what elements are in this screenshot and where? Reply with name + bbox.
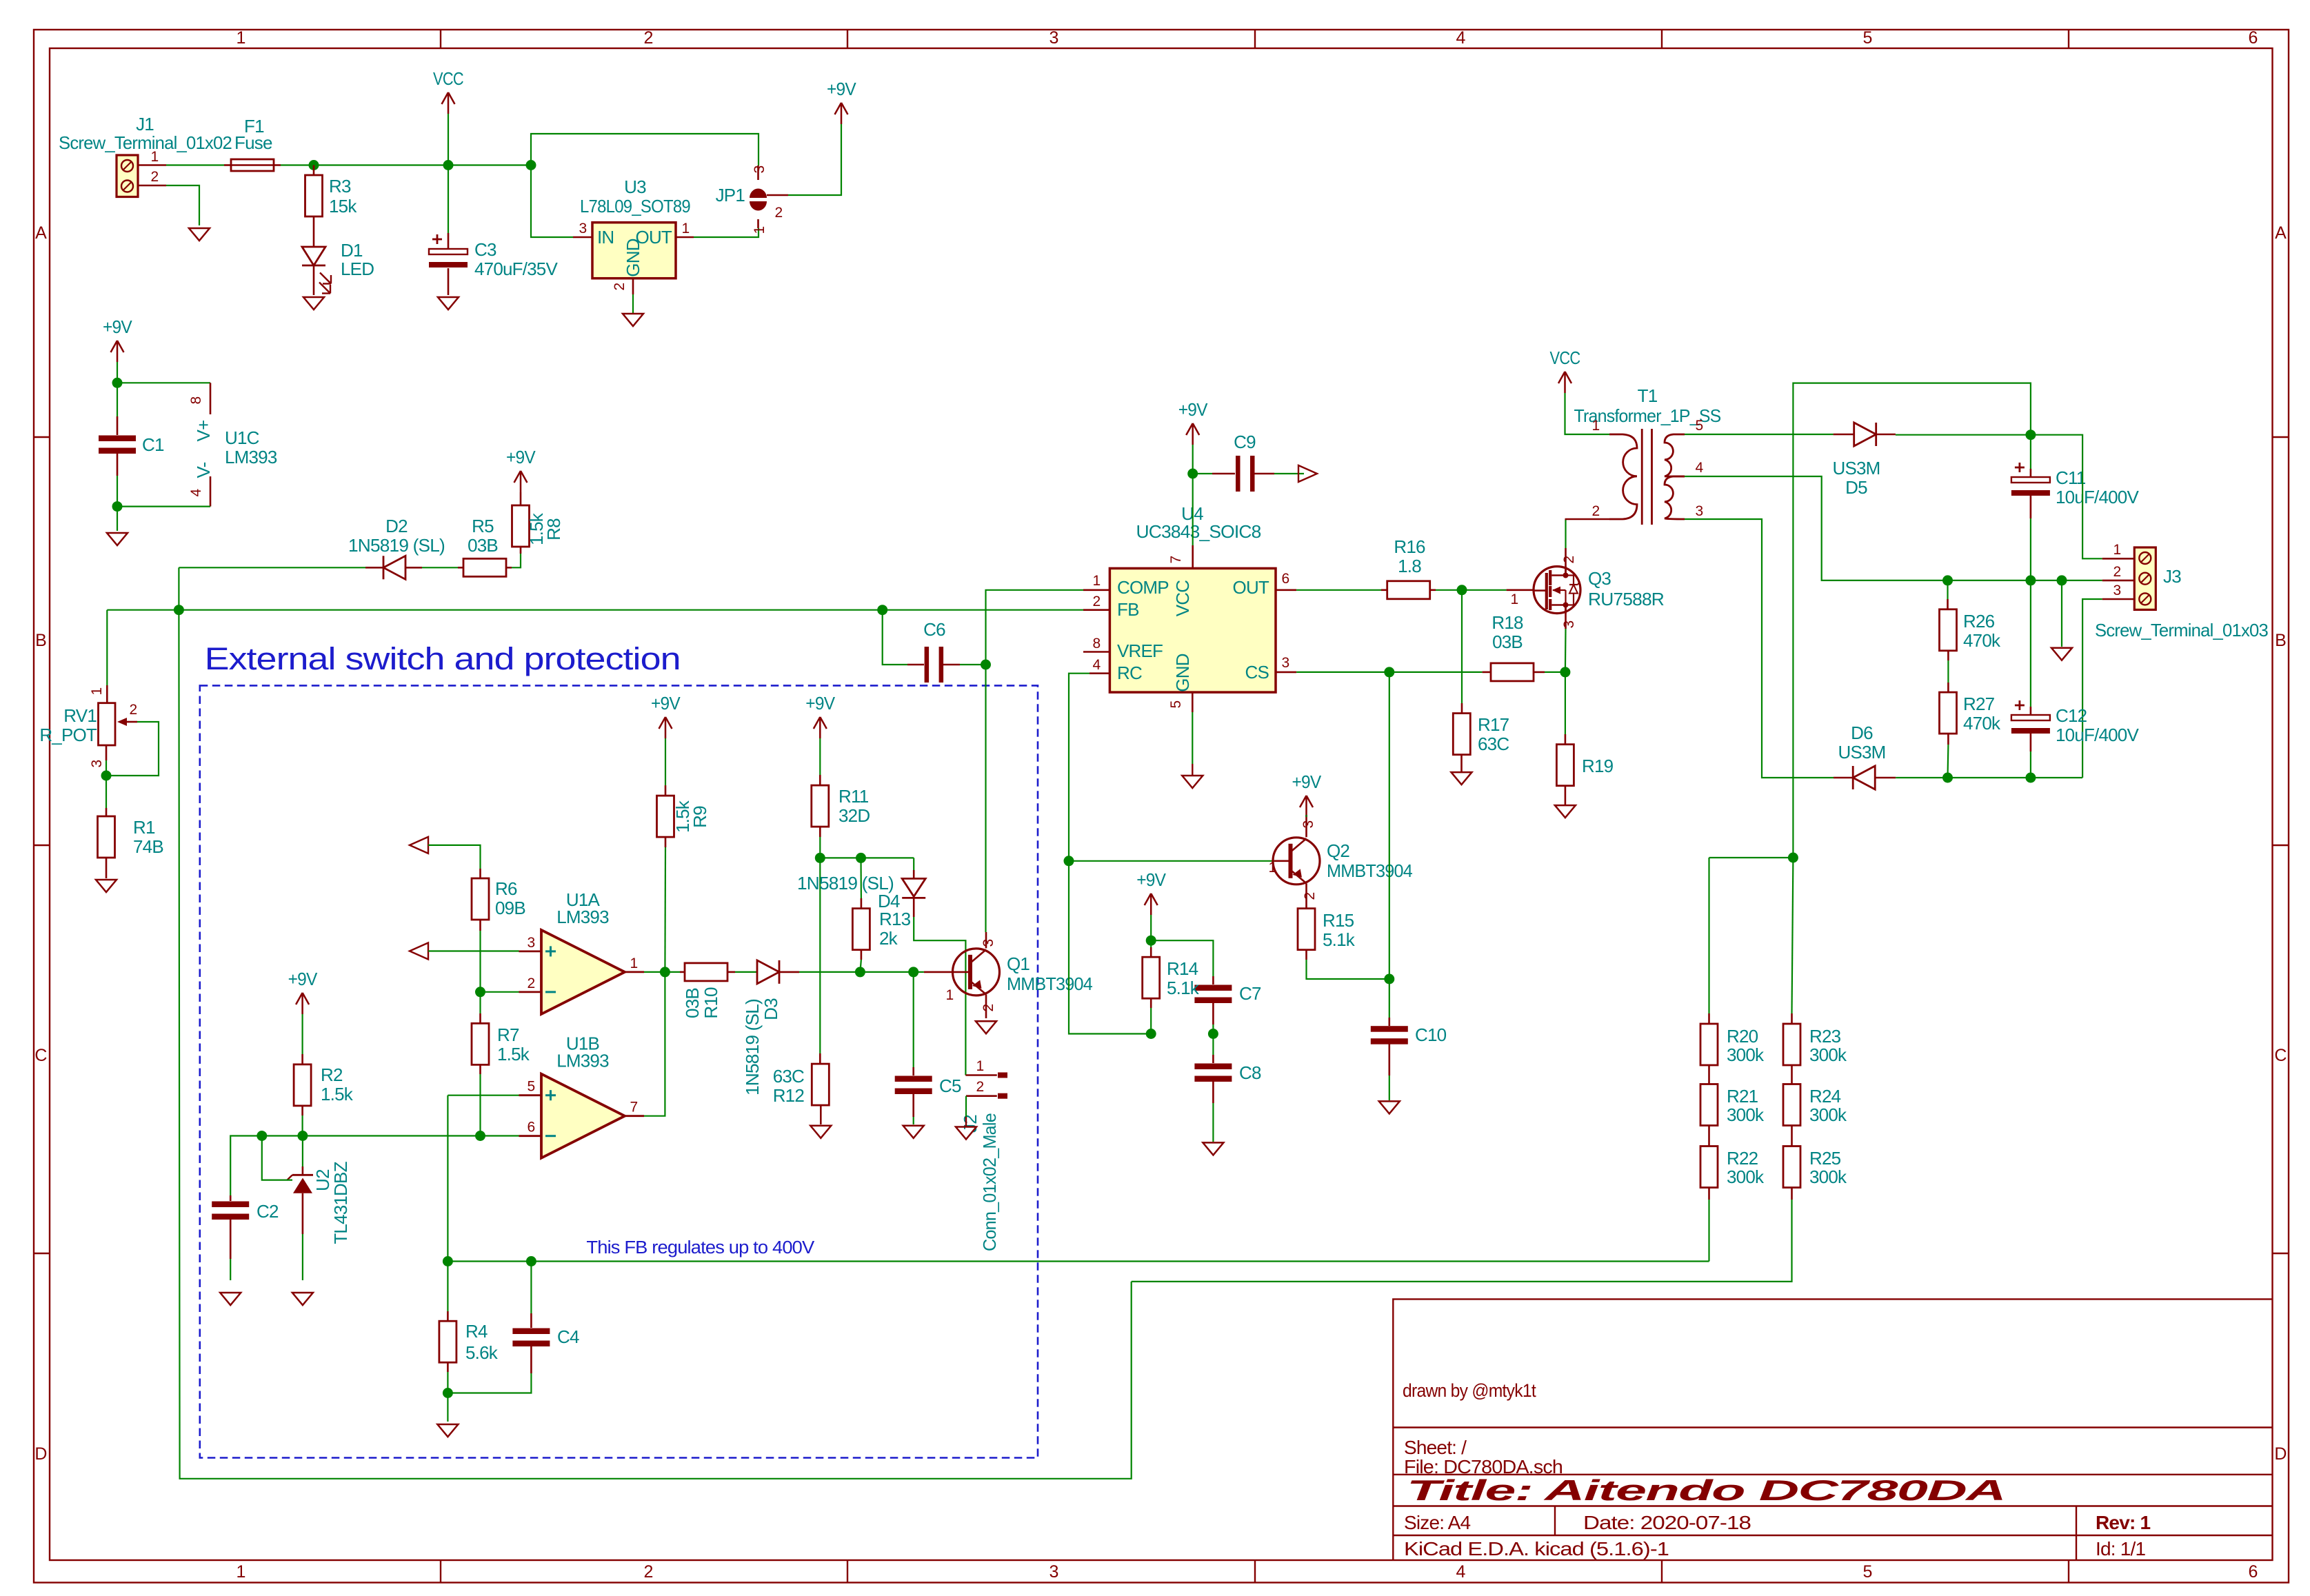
C7 pin stubs	[1212, 976, 1214, 984]
svg-text:2: 2	[612, 283, 627, 290]
svg-text:1: 1	[682, 221, 690, 236]
wire gate node to R17	[1461, 590, 1463, 703]
wire T1 pin4 to mid rail	[1685, 476, 2102, 580]
wire arrow to R6 top	[428, 845, 481, 869]
wire U3 GND down	[632, 294, 634, 314]
ground at C3	[438, 297, 459, 310]
svg-text:C10: C10	[1415, 1024, 1447, 1045]
wire C12 to D6 rail	[2030, 751, 2031, 778]
wire VCC node to C3	[448, 165, 449, 234]
wire CS node to C10	[1389, 979, 1390, 1018]
svg-text:300k: 300k	[1809, 1166, 1847, 1187]
J1 pin stubs	[138, 164, 166, 166]
junction at U1A -input	[475, 987, 485, 997]
power +9V at R11	[805, 693, 835, 738]
wire RV1.3 to node	[106, 760, 107, 776]
svg-text:+9V: +9V	[827, 79, 856, 99]
wire R9 to output node	[664, 847, 666, 972]
wire D6 rail	[1896, 777, 2082, 778]
power +9V at Q2	[1292, 771, 1322, 817]
Q2 emitter stub	[1305, 883, 1307, 900]
junction at D5 output	[2025, 430, 2036, 440]
svg-text:300k: 300k	[1809, 1104, 1847, 1125]
svg-text:2: 2	[1302, 892, 1318, 900]
svg-text:drawn by @mtyk1t: drawn by @mtyk1t	[1403, 1380, 1536, 1401]
svg-text:+9V: +9V	[1178, 399, 1208, 420]
svg-text:J2: J2	[960, 1115, 981, 1133]
regulator U3 body	[592, 223, 676, 279]
op-amp U1A	[519, 889, 645, 1014]
svg-text:3: 3	[2113, 583, 2121, 598]
wire R15 to CS node	[1307, 960, 1389, 979]
open arrow at U1A +input	[410, 943, 428, 960]
R6 pin stubs	[479, 869, 481, 878]
svg-text:1: 1	[630, 956, 638, 971]
svg-text:1: 1	[236, 28, 245, 48]
capacitor C2	[212, 1202, 249, 1220]
transistor Q3 RU7588R	[1534, 567, 1580, 614]
Q1 collector stub	[985, 932, 987, 948]
T1 pin 2 stub	[1565, 518, 1610, 521]
wire top rail	[1793, 383, 2031, 858]
capacitor C5	[895, 1076, 932, 1095]
wire node to U1B -input	[481, 1135, 519, 1136]
svg-text:C8: C8	[1239, 1062, 1261, 1083]
svg-text:LM393: LM393	[556, 1051, 609, 1071]
capacitor C1	[99, 436, 136, 454]
svg-text:J1: J1	[136, 114, 154, 134]
svg-text:1: 1	[2113, 542, 2121, 558]
svg-text:3: 3	[981, 939, 996, 947]
ground at C1	[107, 533, 128, 545]
R1 pin stubs	[106, 808, 108, 816]
wire FB node down long rail	[179, 610, 1131, 1479]
svg-text:2: 2	[976, 1079, 984, 1095]
svg-text:4: 4	[1456, 1562, 1465, 1582]
R12 pin stubs	[819, 1053, 821, 1064]
svg-text:63C: 63C	[1478, 734, 1509, 754]
Q1 base stub	[924, 971, 968, 973]
R11 pin stubs	[819, 775, 821, 785]
junction at R13 top	[856, 853, 866, 863]
D2 pin stubs	[365, 567, 383, 569]
wire FB row down to RV1	[106, 610, 108, 685]
svg-text:C: C	[2274, 1046, 2287, 1065]
svg-text:R_POT: R_POT	[39, 725, 97, 745]
svg-text:2k: 2k	[879, 928, 898, 949]
wire output node to J3 pin1	[2031, 435, 2102, 559]
svg-text:2: 2	[1592, 503, 1600, 519]
ground at U3	[623, 314, 643, 326]
svg-text:R1: R1	[133, 817, 155, 838]
svg-text:1: 1	[976, 1058, 984, 1074]
wire F1 to VCC node	[281, 164, 448, 165]
svg-text:R18: R18	[1492, 612, 1523, 633]
Q3 gate stub	[1507, 589, 1534, 591]
svg-text:R14: R14	[1167, 958, 1198, 979]
op-amp U1B	[519, 1033, 645, 1158]
ground at J2	[956, 1127, 976, 1140]
wire RC net down	[1069, 861, 1151, 1034]
svg-text:3: 3	[89, 760, 105, 767]
svg-text:VCC: VCC	[1550, 347, 1580, 368]
svg-text:1: 1	[236, 1562, 245, 1582]
diode D3	[757, 960, 779, 984]
svg-text:Screw_Terminal_01x03: Screw_Terminal_01x03	[2095, 620, 2268, 640]
wire D2 to R5	[422, 567, 460, 568]
svg-text:5: 5	[1862, 28, 1871, 48]
svg-text:+9V: +9V	[1136, 869, 1166, 890]
junction at C11/C12	[2025, 575, 2036, 585]
svg-text:R20: R20	[1727, 1026, 1758, 1047]
svg-text:VCC: VCC	[433, 68, 463, 89]
wire C10 to ground	[1389, 1075, 1390, 1100]
svg-text:R5: R5	[472, 516, 494, 536]
svg-text:R17: R17	[1478, 714, 1509, 735]
svg-text:3: 3	[1049, 1562, 1058, 1582]
svg-text:FB: FB	[1117, 599, 1139, 620]
svg-text:2: 2	[528, 976, 535, 991]
ground at D1	[303, 297, 324, 310]
D4 cathode stub	[913, 898, 915, 917]
ground at C8	[1203, 1142, 1223, 1155]
svg-text:1.8: 1.8	[1398, 556, 1421, 576]
junction at C8 top	[1208, 1029, 1218, 1039]
svg-text:TL431DBZ: TL431DBZ	[330, 1161, 351, 1244]
R10 pin stubs	[680, 971, 685, 973]
svg-text:300k: 300k	[1809, 1044, 1847, 1065]
svg-text:5.1k: 5.1k	[1167, 978, 1200, 998]
svg-text:470k: 470k	[1963, 713, 2001, 734]
wire R13 to base net	[860, 960, 861, 972]
R23 pin stubs	[1791, 1013, 1793, 1024]
R8 pin stubs	[520, 547, 522, 554]
svg-text:Title: Aitendo DC780DA: Title: Aitendo DC780DA	[1407, 1474, 2005, 1506]
junction at R13 bottom	[855, 967, 865, 977]
wire C9 to open arrow	[1274, 473, 1304, 474]
capacitor C9	[1236, 456, 1255, 492]
connector J1 Screw_Terminal_01x02	[117, 155, 138, 197]
junction at VCC/C3	[443, 160, 454, 170]
U4 ground stub	[1192, 764, 1193, 775]
wire U3 OUT to JP1.1	[694, 228, 759, 237]
D3 cathode stub	[779, 971, 799, 973]
open arrow at C9	[1298, 465, 1317, 482]
svg-text:2: 2	[151, 169, 159, 185]
C10 pin stubs	[1389, 1018, 1391, 1026]
svg-text:1N5819 (SL): 1N5819 (SL)	[348, 535, 445, 556]
R5 pin stubs	[458, 567, 463, 569]
wire U1B +input	[448, 1095, 519, 1096]
svg-text:8: 8	[1093, 636, 1101, 651]
svg-text:3: 3	[1282, 655, 1289, 671]
svg-text:COMP: COMP	[1117, 577, 1169, 598]
wire D5 to output node	[1896, 434, 2031, 436]
wire node row to C8	[1212, 1034, 1214, 1055]
wire U4 RC to Q2 base	[1069, 674, 1274, 861]
svg-text:470uF/35V: 470uF/35V	[474, 259, 558, 279]
svg-text:UC3843_SOIC8: UC3843_SOIC8	[1136, 521, 1261, 542]
capacitor C8	[1194, 1064, 1232, 1082]
svg-text:3: 3	[579, 221, 587, 236]
wire C8 to ground	[1212, 1103, 1214, 1142]
diode D2	[383, 556, 405, 579]
svg-text:7: 7	[630, 1100, 638, 1115]
wire D6 rail to J3 pin3	[2082, 599, 2102, 778]
junction at C5 top	[908, 967, 918, 977]
U4 pin 1 stub	[1083, 589, 1109, 591]
svg-text:3: 3	[528, 935, 535, 951]
ground at J3 pin2 rail	[2051, 648, 2072, 660]
svg-text:03B: 03B	[468, 535, 498, 556]
svg-text:C: C	[34, 1046, 47, 1065]
svg-text:R4: R4	[465, 1321, 488, 1342]
svg-text:T1: T1	[1638, 385, 1658, 406]
junction at R2 bottom	[297, 1131, 308, 1141]
svg-text:1: 1	[1592, 418, 1600, 434]
wire output node to U1B out	[644, 972, 665, 1116]
svg-text:R22: R22	[1727, 1148, 1758, 1169]
wire R14 node to C7	[1151, 940, 1213, 976]
C9 pin stubs	[1212, 473, 1235, 475]
svg-text:RC: RC	[1117, 663, 1142, 683]
C2 pin stubs	[230, 1195, 232, 1201]
svg-text:3: 3	[1300, 820, 1316, 828]
svg-text:LED: LED	[341, 259, 374, 279]
wire U4 COMP to Q1 collector	[986, 590, 1084, 932]
wire +9V to Q2 collector	[1305, 815, 1307, 817]
svg-text:5: 5	[1862, 1562, 1871, 1582]
R24-R25 stub	[1791, 1126, 1793, 1147]
junction at R3 top	[309, 160, 319, 170]
svg-text:KiCad E.D.A. kicad (5.1.6)-1: KiCad E.D.A. kicad (5.1.6)-1	[1404, 1538, 1669, 1559]
svg-text:JP1: JP1	[716, 185, 745, 205]
svg-text:09B: 09B	[495, 898, 525, 918]
power VCC at T1	[1550, 347, 1580, 393]
wire JP1.2 to +9V	[788, 124, 841, 195]
wire mid rail to C12	[2030, 580, 2031, 707]
wire +input arrow	[428, 950, 519, 951]
TL431 U2	[287, 1166, 313, 1234]
svg-text:R21: R21	[1727, 1086, 1758, 1107]
resistor R14	[1143, 957, 1160, 998]
svg-text:D2: D2	[385, 516, 408, 536]
C4 pin stubs	[530, 1313, 532, 1328]
svg-text:R2: R2	[321, 1064, 343, 1085]
svg-text:L78L09_SOT89: L78L09_SOT89	[580, 196, 690, 216]
wire bottom node to ground	[447, 1393, 448, 1422]
wire C5 to ground	[913, 1117, 914, 1124]
svg-text:R23: R23	[1809, 1026, 1841, 1047]
svg-text:LM393: LM393	[556, 907, 609, 927]
resistor R13	[852, 909, 870, 950]
junction at R14 top	[1146, 936, 1156, 946]
wire C1 node to ground	[117, 507, 118, 531]
wire +9V arrow to R8	[520, 492, 521, 493]
svg-text:D1: D1	[341, 240, 363, 261]
U1C pin 4 stub	[210, 476, 212, 507]
junction at Q3 source	[1560, 667, 1570, 677]
wire output node to C11	[2030, 435, 2031, 469]
capacitor C3	[429, 234, 468, 267]
wire R4 to bottom node	[447, 1372, 448, 1393]
wire R16 to gate node	[1436, 589, 1507, 591]
svg-text:+9V: +9V	[1292, 771, 1322, 792]
ground at U2	[292, 1293, 313, 1305]
wire C2 to ground	[230, 1259, 231, 1280]
svg-text:5: 5	[1696, 418, 1703, 434]
svg-text:C12: C12	[2056, 705, 2087, 726]
svg-text:R11: R11	[838, 786, 869, 807]
resistor R2	[294, 1064, 311, 1106]
wire J1.1 to F1	[166, 164, 224, 165]
wire Q3 drain to T1 pin2	[1565, 519, 1566, 548]
svg-text:J3: J3	[2163, 566, 2181, 587]
junction at CS net	[1384, 667, 1394, 677]
svg-text:6: 6	[528, 1120, 535, 1135]
wire +9V to VCC node	[1192, 445, 1194, 474]
Q3 source stub	[1565, 605, 1567, 629]
R2 pin stubs	[301, 1054, 303, 1064]
C8 pin stubs	[1212, 1055, 1214, 1063]
wire source node to R19	[1565, 672, 1566, 734]
ground at R12	[810, 1126, 831, 1138]
svg-text:GND: GND	[623, 239, 643, 276]
svg-text:LM393: LM393	[225, 447, 277, 467]
svg-text:8: 8	[188, 396, 204, 404]
junction at C10 top	[1384, 974, 1394, 984]
svg-text:VCC: VCC	[1172, 580, 1193, 617]
wire +9V to C1 node	[117, 362, 118, 383]
svg-text:6: 6	[2248, 1562, 2257, 1582]
svg-text:+9V: +9V	[103, 316, 132, 337]
R16 pin stubs	[1381, 589, 1387, 591]
Q2 base stub	[1274, 860, 1289, 862]
svg-text:R13: R13	[879, 909, 911, 929]
connector J3 Screw_Terminal_01x03	[2134, 547, 2156, 609]
wire R7 to U1B -input node	[479, 1074, 481, 1136]
svg-text:C5: C5	[939, 1075, 961, 1096]
svg-text:1: 1	[1093, 573, 1101, 589]
connector J2 pin1	[965, 1073, 1007, 1078]
wire VCC to T1 pin1	[1565, 393, 1610, 434]
note dashed box	[200, 685, 1038, 1457]
diode D4	[902, 878, 925, 898]
svg-text:R12: R12	[773, 1085, 805, 1106]
svg-text:4: 4	[1696, 460, 1704, 476]
svg-text:R15: R15	[1323, 910, 1354, 931]
wire ladder left top	[1708, 858, 1709, 1013]
J2 ground stub	[965, 1117, 967, 1127]
svg-text:R27: R27	[1963, 694, 1995, 714]
svg-text:15k: 15k	[329, 196, 357, 216]
junction at C9	[1187, 469, 1198, 479]
svg-text:7: 7	[1168, 556, 1184, 563]
wire node to U1A -input	[481, 991, 519, 993]
power +9V at R14	[1136, 869, 1166, 915]
resistor R15	[1298, 909, 1315, 950]
svg-text:1: 1	[1269, 860, 1276, 876]
wire node to C9	[1193, 473, 1212, 474]
diode D5	[1854, 423, 1876, 446]
junction at C4 top	[526, 1256, 536, 1266]
wire R14 to node row	[1150, 1008, 1152, 1034]
svg-text:32D: 32D	[838, 805, 870, 826]
power +9V at R8	[506, 447, 536, 492]
svg-text:2: 2	[775, 205, 783, 221]
C6 pin stubs	[907, 664, 924, 666]
R4 pin stubs	[447, 1311, 449, 1321]
svg-text:03B: 03B	[682, 988, 703, 1018]
svg-text:This FB regulates up to 400V: This FB regulates up to 400V	[586, 1238, 814, 1257]
U4 pin 7 stub	[1192, 545, 1194, 568]
svg-text:Q2: Q2	[1327, 840, 1349, 861]
wire VCC node to U3 branch	[448, 164, 531, 165]
wire D2 row down to FB node	[178, 567, 179, 609]
resistor R18	[1491, 663, 1534, 681]
resistor R20	[1700, 1024, 1718, 1065]
svg-text:MMBT3904: MMBT3904	[1007, 973, 1092, 994]
resistor R27	[1940, 692, 1957, 734]
wire FB node down to C6	[883, 610, 907, 665]
svg-text:OUT: OUT	[1233, 577, 1269, 598]
wire node to R7	[479, 992, 481, 1013]
wire J2.2 to ground	[965, 1096, 967, 1117]
svg-text:+9V: +9V	[288, 969, 318, 989]
junction at R23 ladder top	[1788, 853, 1798, 863]
svg-text:3: 3	[1049, 28, 1058, 48]
svg-text:V+: V+	[193, 421, 214, 442]
wire node to D4	[913, 858, 914, 870]
svg-text:A: A	[35, 223, 47, 243]
svg-text:D6: D6	[1851, 723, 1873, 743]
ground at R19	[1555, 805, 1576, 818]
wire -input row left	[230, 1136, 480, 1196]
ground at R17	[1452, 772, 1472, 785]
wire R11 node to R12	[819, 858, 821, 1053]
jumper JP1	[750, 165, 788, 228]
svg-text:Q1: Q1	[1007, 953, 1030, 974]
R26 pin stubs	[1947, 599, 1949, 609]
wire CS vertical	[1389, 672, 1390, 979]
wire node to R1	[106, 776, 107, 808]
resistor R5	[463, 558, 506, 576]
RV1 pin stubs	[106, 685, 108, 703]
resistor R17	[1453, 714, 1470, 755]
wire ladder link	[1709, 857, 1794, 858]
junction at R14 bottom	[1146, 1029, 1156, 1039]
Q2 collector stub	[1305, 815, 1307, 837]
diode D6	[1853, 766, 1875, 789]
wire U1B +input down to FB rail	[447, 1095, 448, 1262]
svg-text:R16: R16	[1394, 536, 1425, 557]
resistor R24	[1783, 1084, 1800, 1126]
svg-text:Date: 2020-07-18: Date: 2020-07-18	[1583, 1512, 1751, 1533]
ground at C10	[1379, 1101, 1400, 1113]
svg-text:10uF/400V: 10uF/400V	[2056, 487, 2139, 507]
ground at C2	[220, 1293, 241, 1305]
resistor R25	[1783, 1147, 1800, 1188]
C5 pin stubs	[912, 1067, 914, 1075]
svg-text:R25: R25	[1809, 1148, 1841, 1169]
D4 anode stub	[913, 870, 915, 878]
svg-text:RU7588R: RU7588R	[1588, 589, 1664, 609]
Q3 drain stub	[1565, 548, 1567, 576]
svg-text:U1C: U1C	[225, 427, 259, 448]
LED D1	[302, 247, 331, 295]
svg-text:2: 2	[130, 702, 137, 718]
svg-text:Q3: Q3	[1588, 568, 1611, 589]
